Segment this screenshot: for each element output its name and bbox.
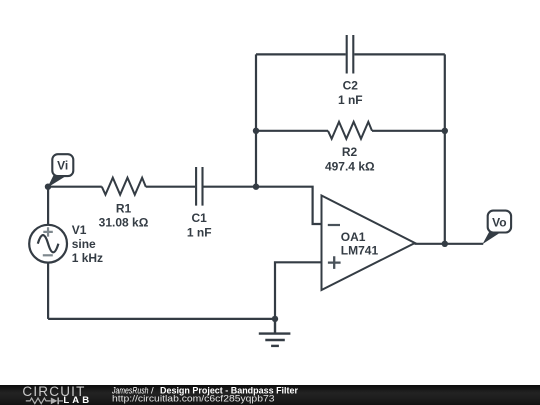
- V1 minus polarity: [43, 254, 53, 256]
- node dot at Vi: [45, 184, 51, 190]
- svg-text:Vo: Vo: [492, 215, 506, 229]
- V1 sine symbol: [38, 235, 59, 252]
- svg-text:C2: C2: [343, 79, 359, 93]
- wire C1 to op-amp inverting input: [204, 187, 322, 224]
- node dot at output: [442, 241, 448, 247]
- ground: [259, 319, 291, 346]
- op-amp inverting input minus symbol: [328, 224, 340, 226]
- svg-text:1 nF: 1 nF: [187, 225, 212, 239]
- wire left vertical feedback: [255, 54, 257, 186]
- wire op-amp output: [415, 243, 484, 245]
- wire Vi node to R1: [48, 186, 102, 188]
- wire C2 to right corner: [354, 53, 445, 55]
- svg-text:LAB: LAB: [63, 395, 92, 405]
- node dot at ground junction: [272, 316, 278, 322]
- svg-text:V1: V1: [72, 223, 87, 237]
- svg-text:Vi: Vi: [57, 159, 68, 173]
- svg-text:http://circuitlab.com/c6cf285y: http://circuitlab.com/c6cf285yqpb73: [112, 393, 275, 404]
- V1 plus polarity: [43, 227, 53, 236]
- wire bottom from V1 to ground node: [48, 318, 275, 320]
- svg-text:1 nF: 1 nF: [338, 93, 363, 107]
- node flag Vo: [483, 211, 512, 245]
- svg-text:sine: sine: [72, 237, 96, 251]
- wire R2 to right vertical: [372, 130, 445, 132]
- wire V1 bottom lead: [47, 262, 49, 319]
- svg-text:LM741: LM741: [341, 244, 379, 258]
- wire V1 top lead: [47, 187, 49, 226]
- svg-text:R1: R1: [116, 202, 132, 216]
- svg-text:497.4 kΩ: 497.4 kΩ: [325, 159, 375, 173]
- resistor R1: [102, 178, 146, 195]
- svg-text:R2: R2: [342, 145, 358, 159]
- wire top to C2: [256, 53, 346, 55]
- wire R1 to C1: [146, 186, 195, 188]
- voltage source V1 circle: [29, 225, 67, 263]
- CircuitLab logo: [22, 384, 92, 405]
- node dot at C1/feedback junction: [253, 184, 259, 190]
- svg-text:31.08 kΩ: 31.08 kΩ: [99, 215, 149, 229]
- wire right vertical feedback: [444, 54, 446, 243]
- op-amp non-inverting input plus symbol: [328, 256, 341, 269]
- op-amp U1 triangle: [322, 196, 415, 291]
- svg-text:OA1: OA1: [341, 230, 366, 244]
- node flag Vi: [48, 154, 74, 187]
- svg-text:1 kHz: 1 kHz: [72, 251, 103, 265]
- node dot at R2 right: [442, 128, 448, 134]
- svg-text:C1: C1: [192, 211, 208, 225]
- capacitor C2: [347, 35, 354, 74]
- resistor R2: [328, 122, 372, 139]
- node dot at R2 left: [253, 128, 259, 134]
- wire left to R2: [256, 130, 328, 132]
- capacitor C1: [196, 167, 202, 206]
- footer bar: [0, 385, 540, 405]
- wire non-inverting input to ground node: [275, 262, 322, 319]
